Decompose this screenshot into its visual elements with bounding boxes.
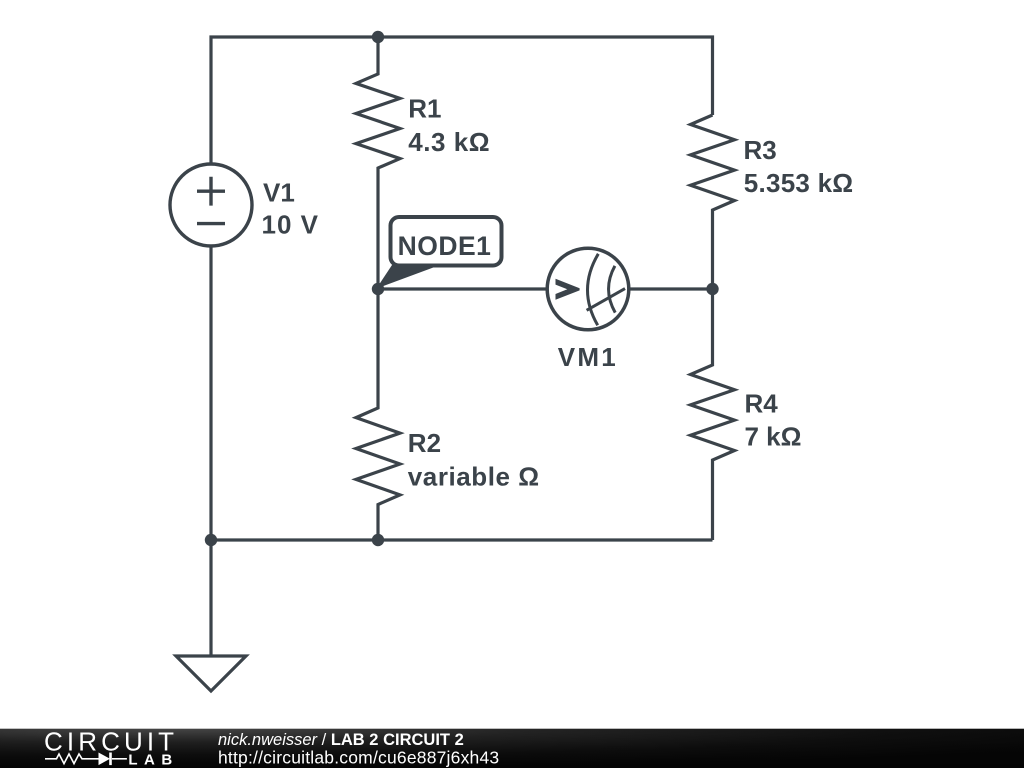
node junction dot right middle [706, 283, 718, 295]
V1 plus sign [197, 177, 225, 206]
node junction dot NODE1 [372, 283, 384, 295]
node junction dot top [372, 31, 384, 43]
svg-text:NODE1: NODE1 [398, 231, 492, 261]
logo diode triangle [99, 753, 111, 766]
svg-text:R2: R2 [408, 428, 441, 458]
resistor R4 [691, 289, 735, 540]
voltage source V1 circle [170, 164, 252, 246]
svg-text:10 V: 10 V [262, 210, 320, 240]
wire bottom horizontal [211, 538, 713, 541]
resistor R1 [356, 37, 400, 289]
wire left vertical below V1 [209, 246, 212, 540]
node junction dot bottom left [205, 534, 217, 546]
svg-text:nick.nweisser / LAB 2 CIRCUIT: nick.nweisser / LAB 2 CIRCUIT 2 [218, 731, 464, 749]
wire NODE1 to VM1 left lead [378, 287, 547, 290]
svg-text:7 kΩ: 7 kΩ [745, 421, 802, 451]
svg-text:VM1: VM1 [558, 342, 618, 372]
svg-text:R4: R4 [745, 389, 779, 419]
NODE1 callout tail [377, 264, 437, 289]
logo resistor-diode line [45, 753, 127, 766]
wire ground stem [209, 540, 212, 656]
voltmeter VM1 circle [547, 248, 629, 330]
svg-text:5.353 kΩ: 5.353 kΩ [744, 168, 854, 198]
svg-text:V1: V1 [263, 177, 295, 207]
VM1 chevron [556, 279, 580, 300]
wire top horizontal [211, 37, 713, 164]
resistor R2 [356, 289, 400, 540]
VM1 meter scale arc inner [609, 266, 616, 313]
NODE1 callout box [391, 217, 502, 266]
wire VM1 right lead to right rail [629, 287, 713, 290]
svg-text:variable Ω: variable Ω [408, 462, 540, 492]
ground symbol triangle [176, 656, 246, 691]
svg-text:R1: R1 [408, 94, 441, 124]
node junction dot bottom middle [372, 534, 384, 546]
VM1 meter scale arc outer [587, 254, 598, 325]
svg-text:http://circuitlab.com/cu6e887j: http://circuitlab.com/cu6e887j6xh43 [218, 748, 499, 768]
V1 minus sign [197, 222, 225, 225]
svg-text:R3: R3 [744, 135, 777, 165]
resistor R3 [691, 115, 735, 289]
svg-text:LAB: LAB [128, 752, 178, 768]
svg-text:4.3 kΩ: 4.3 kΩ [408, 127, 490, 157]
VM1 needle [587, 289, 625, 311]
